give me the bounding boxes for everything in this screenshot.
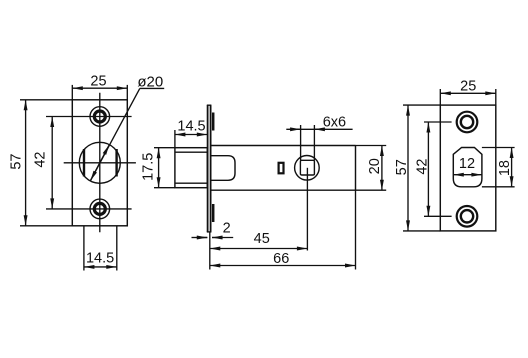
svg-text:57: 57 (394, 159, 410, 175)
svg-text:20: 20 (367, 158, 383, 174)
svg-text:18: 18 (497, 160, 513, 176)
svg-text:42: 42 (33, 152, 49, 168)
svg-text:12: 12 (459, 156, 475, 172)
svg-text:42: 42 (415, 159, 431, 175)
svg-text:2: 2 (223, 221, 231, 237)
svg-text:6x6: 6x6 (323, 114, 346, 130)
svg-text:14.5: 14.5 (86, 251, 114, 267)
svg-text:17.5: 17.5 (140, 153, 156, 181)
svg-text:66: 66 (273, 251, 289, 267)
svg-text:14.5: 14.5 (177, 118, 205, 134)
svg-text:ø20: ø20 (137, 74, 163, 91)
svg-text:25: 25 (460, 79, 476, 95)
svg-text:25: 25 (90, 74, 106, 90)
svg-text:45: 45 (254, 231, 270, 247)
svg-text:57: 57 (9, 154, 25, 170)
